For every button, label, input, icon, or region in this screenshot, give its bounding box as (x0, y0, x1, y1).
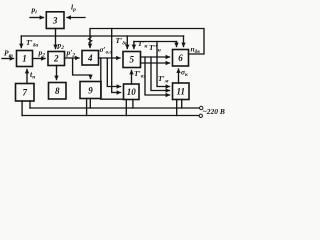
svg-text:p2: p2 (57, 41, 65, 52)
svg-text:5: 5 (129, 55, 134, 65)
svg-text:Pт: Pт (4, 49, 14, 60)
svg-text:T′δа: T′δа (116, 36, 129, 47)
svg-text:lp: lp (71, 3, 76, 14)
svg-text:tп: tп (30, 70, 35, 81)
svg-text:p2: p2 (38, 48, 46, 59)
svg-text:9: 9 (88, 86, 93, 96)
svg-text:11: 11 (176, 86, 185, 96)
svg-text:T′δа: T′δа (26, 38, 39, 49)
svg-text:7: 7 (22, 88, 27, 98)
svg-text:4: 4 (87, 53, 93, 63)
svg-text:p′2: p′2 (66, 48, 76, 59)
svg-text:T′н: T′н (138, 39, 148, 50)
svg-text:6: 6 (178, 53, 183, 63)
svg-text:~220 В: ~220 В (203, 107, 225, 116)
svg-text:T′вз: T′вз (134, 69, 146, 80)
svg-text:σк: σк (181, 68, 188, 79)
svg-text:2: 2 (53, 54, 59, 64)
svg-text:pi: pi (31, 5, 38, 16)
svg-text:T″н: T″н (149, 43, 161, 54)
svg-text:σ′в.о: σ′в.о (100, 45, 113, 56)
svg-text:T′м: T′м (158, 74, 169, 85)
svg-text:1: 1 (22, 54, 27, 64)
svg-text:8: 8 (55, 86, 60, 96)
svg-text:3: 3 (52, 16, 58, 26)
svg-text:nдв: nдв (191, 45, 201, 56)
svg-text:10: 10 (127, 87, 137, 97)
